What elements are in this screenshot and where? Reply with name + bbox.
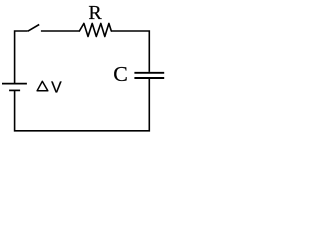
wire top segment with resistor, right upper segment <box>41 30 80 32</box>
resistor R1 zigzag <box>79 23 111 36</box>
wire left lower, bottom, right lower segments <box>15 78 150 131</box>
svg-text:V: V <box>51 79 62 96</box>
svg-text:C: C <box>113 63 128 86</box>
battery V1 long plate <box>2 83 27 85</box>
svg-text:R: R <box>88 2 102 24</box>
capacitor C1 bottom plate <box>134 77 164 79</box>
label ΔV delta triangle <box>37 81 48 91</box>
wire resistor to top-right corner, down to capacitor <box>111 31 149 72</box>
capacitor C1 top plate <box>134 72 164 74</box>
battery V1 short plate <box>9 89 20 91</box>
wire top-left corner and left upper segment <box>15 31 28 84</box>
switch S1 blade <box>28 25 39 32</box>
